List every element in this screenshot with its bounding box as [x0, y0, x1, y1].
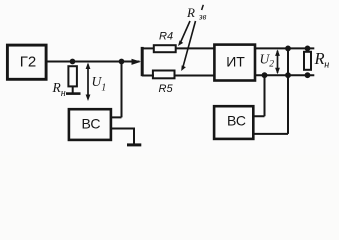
wire BC1 to ground	[111, 129, 134, 145]
arrow U1 (double headed)	[87, 65, 89, 99]
ground bar	[127, 143, 141, 146]
node dot bottom wire line B	[285, 72, 291, 78]
pointer line to R4	[180, 21, 190, 44]
node dot at Rн top	[70, 59, 76, 65]
svg-text:R5: R5	[159, 83, 174, 95]
arrow U2 (double headed)	[277, 51, 279, 73]
resistor Rн right (vertical)	[304, 52, 311, 70]
wire top right	[255, 47, 314, 49]
resistor R4	[154, 45, 176, 52]
wire resistor bottom lead	[72, 86, 74, 92]
svg-text:зв: зв	[198, 11, 207, 21]
node dot bottom wire for line A	[262, 72, 268, 78]
voltmeter box BC1	[69, 109, 111, 140]
wire bottom right	[255, 74, 314, 76]
node dot top wire line B	[285, 46, 291, 52]
wire main from Г2 to node	[46, 61, 140, 63]
svg-text:ВС: ВС	[82, 115, 101, 131]
terminal bar below Rн	[66, 92, 81, 95]
wire line B to BC2	[253, 48, 288, 133]
svg-text:Г2: Г2	[20, 54, 36, 71]
voltmeter box BC2	[214, 106, 253, 139]
wire top branch right	[176, 47, 215, 49]
generator box Г2	[7, 45, 46, 79]
node dot junction to BC1	[119, 59, 125, 65]
svg-text:R: R	[186, 5, 195, 20]
wire bottom branch left	[142, 75, 154, 77]
node dot resistor top	[305, 46, 311, 52]
node dot resistor bottom	[305, 72, 311, 78]
wire line A to BC2	[253, 75, 265, 116]
resistor R5	[153, 71, 175, 79]
pointer line to R5	[183, 21, 196, 67]
node bar splitting branches	[141, 47, 144, 76]
transformer box ИТ	[214, 45, 255, 81]
wire top branch left	[142, 47, 154, 49]
wire bottom branch right	[175, 75, 216, 77]
resistor Rн left (vertical)	[68, 66, 77, 86]
arrowhead into node bar	[132, 59, 142, 65]
svg-text:ИТ: ИТ	[226, 53, 245, 69]
svg-text:R4: R4	[159, 30, 173, 42]
wire down to BC1	[111, 62, 122, 118]
svg-text:ВС: ВС	[227, 113, 246, 129]
